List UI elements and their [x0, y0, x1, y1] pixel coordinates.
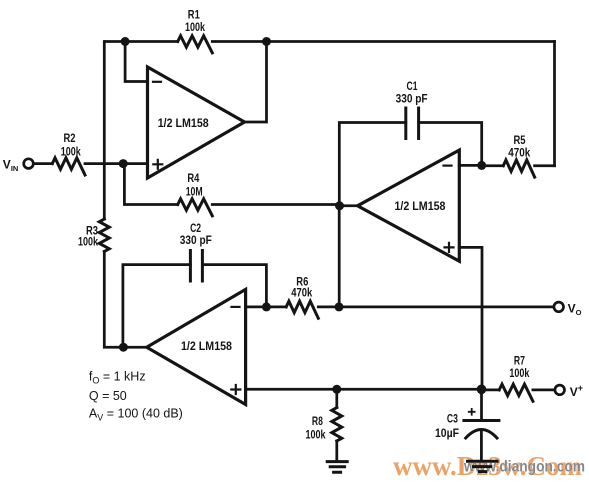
C3 plus polarity mark	[469, 409, 475, 415]
ground under R8	[327, 462, 347, 473]
svg-text:100k: 100k	[185, 20, 205, 34]
wire U1 inverting input stub	[125, 42, 147, 82]
op-amp U1 triangle	[148, 67, 245, 178]
svg-text:10M: 10M	[186, 185, 203, 199]
svg-text:100k: 100k	[78, 235, 98, 249]
node: junction V_IN / U1 non-inverting	[119, 159, 128, 168]
resistor R8 wire top	[335, 389, 338, 407]
svg-text:R2: R2	[64, 131, 76, 145]
node: U3 inverting / C2 / R6	[262, 302, 271, 311]
resistor R7 wire left	[482, 389, 500, 392]
node: V+ / R7 / C3	[477, 385, 487, 395]
capacitor C2 loop wires	[123, 265, 267, 348]
svg-text:AV = 100 (40 dB): AV = 100 (40 dB)	[89, 406, 183, 422]
wire R4 branch	[124, 164, 177, 205]
resistor R4	[178, 199, 213, 216]
svg-text:330 pF: 330 pF	[180, 233, 212, 247]
svg-text:1/2 LM158: 1/2 LM158	[395, 199, 446, 213]
svg-text:R8: R8	[312, 414, 323, 428]
node: R8 top	[332, 385, 341, 394]
U3 minus symbol	[232, 306, 240, 308]
node: U2 output node	[335, 201, 344, 210]
wire left vertical lower	[104, 252, 146, 348]
op-amp U3 triangle	[147, 289, 246, 404]
svg-text:330 pF: 330 pF	[396, 92, 428, 106]
capacitor C1 plates	[406, 108, 419, 139]
resistor R2	[52, 158, 85, 175]
resistor R1	[178, 36, 213, 53]
op-amp U2 triangle	[358, 150, 460, 261]
wire U2 non-inverting input down to V+ node	[459, 247, 482, 389]
svg-text:Q = 50: Q = 50	[89, 389, 127, 403]
ground under C3	[468, 461, 498, 471]
wire U3 non-inverting / V+ line	[246, 388, 482, 391]
wire right rail	[553, 42, 556, 166]
resistor R7 wire right	[533, 389, 555, 392]
wire U3 inverting input	[246, 306, 267, 309]
svg-text:10µF: 10µF	[435, 426, 459, 440]
svg-text:100k: 100k	[509, 366, 529, 380]
resistor R3	[99, 219, 109, 252]
capacitor C3 curved plate	[466, 430, 497, 439]
watermark www.Dz3w.Com	[393, 451, 582, 481]
svg-text:C3: C3	[447, 412, 458, 426]
node: junction top rail / U1 output	[262, 37, 271, 46]
node: U3 output node	[119, 343, 128, 352]
U1 plus symbol	[153, 160, 162, 169]
resistor R8 wire bottom	[335, 441, 338, 460]
terminal V_O	[554, 302, 564, 312]
wire U2 inverting input	[459, 164, 481, 167]
capacitor C3 top plate	[464, 419, 499, 422]
capacitor C2 plates	[190, 251, 202, 282]
wire U2 output stub	[340, 204, 358, 207]
resistor R6	[286, 301, 318, 318]
svg-text:1/2 LM158: 1/2 LM158	[181, 339, 232, 353]
terminal V_IN	[24, 159, 34, 169]
svg-text:470k: 470k	[291, 286, 312, 300]
resistor R7	[499, 384, 533, 401]
resistor R5 wire left	[482, 164, 504, 167]
resistor R5	[503, 160, 534, 177]
wire U2 output node down to R6 node	[338, 206, 341, 307]
wire top rail right segment	[212, 40, 554, 43]
watermark www.diangon.com	[463, 459, 585, 476]
capacitor C3 lead bottom	[480, 432, 483, 460]
svg-text:100k: 100k	[61, 145, 81, 159]
wire top rail left segment	[106, 40, 178, 43]
U2 plus symbol	[445, 243, 454, 252]
resistor R5 wire right	[535, 164, 555, 167]
resistor R8	[332, 408, 342, 441]
capacitor C3 lead top	[480, 389, 483, 420]
node: junction top rail / U1 inverting	[121, 37, 130, 46]
U2 minus symbol	[444, 165, 452, 167]
svg-text:470k: 470k	[508, 146, 530, 160]
resistor R6 wire left	[266, 306, 286, 309]
svg-text:1/2 LM158: 1/2 LM158	[158, 116, 209, 130]
U3 plus symbol	[231, 385, 240, 394]
wire U1 output to top rail	[245, 42, 267, 123]
svg-text:100k: 100k	[306, 428, 326, 442]
wire R4 to U2 output node	[212, 203, 339, 206]
U1 minus symbol	[153, 81, 161, 83]
node: R6 / V_O line	[335, 302, 344, 311]
wire V_O line	[318, 306, 554, 309]
node: U2 inverting / C1 / R5	[477, 161, 486, 170]
svg-text:R4: R4	[187, 171, 199, 185]
wire left vertical upper	[103, 42, 106, 220]
capacitor C1 loop wires	[339, 123, 481, 206]
terminal V+	[555, 385, 565, 395]
wire V_IN line	[33, 162, 147, 165]
